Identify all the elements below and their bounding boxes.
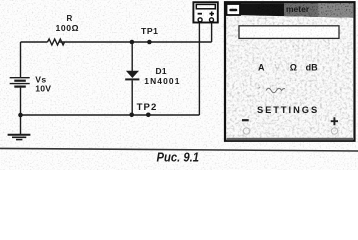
figure caption separator: [0, 148, 358, 151]
junction node diode bottom: [129, 113, 134, 118]
wire bottom rail: [21, 114, 200, 116]
multimeter U1 window: [225, 2, 355, 141]
wire voltmeter plus lead: [211, 23, 213, 43]
node TP2: [137, 102, 158, 117]
multimeter bottom inner strip: [227, 138, 354, 141]
multimeter plus terminal label: [331, 117, 338, 125]
panel scan texture (decorative): [226, 16, 353, 139]
multimeter minus terminal label: [242, 119, 249, 121]
battery Vs: [10, 75, 52, 94]
multimeter plus terminal: [331, 128, 337, 134]
wire left rail lower: [20, 88, 22, 115]
wire top rail: [21, 41, 212, 43]
scan noise overlay (decorative): [0, 0, 358, 170]
multimeter DC dash (faint): [259, 87, 261, 89]
voltmeter M1: [193, 2, 217, 22]
wire voltmeter minus lead: [198, 23, 200, 116]
multimeter control-menu box: [227, 4, 241, 15]
wire left rail upper: [20, 42, 22, 78]
multimeter title bar: [226, 3, 354, 17]
diode D1: [125, 42, 180, 115]
multimeter minus terminal: [243, 128, 249, 134]
multimeter AC sine button: [266, 88, 285, 92]
resistor R: [48, 14, 80, 45]
ground: [8, 115, 31, 140]
node TP1: [141, 26, 159, 45]
junction node diode top: [130, 40, 135, 45]
svg-text:Рис. 9.1: Рис. 9.1: [157, 150, 200, 165]
multimeter display: [239, 26, 339, 39]
junction node battery/bottom rail: [18, 113, 23, 118]
